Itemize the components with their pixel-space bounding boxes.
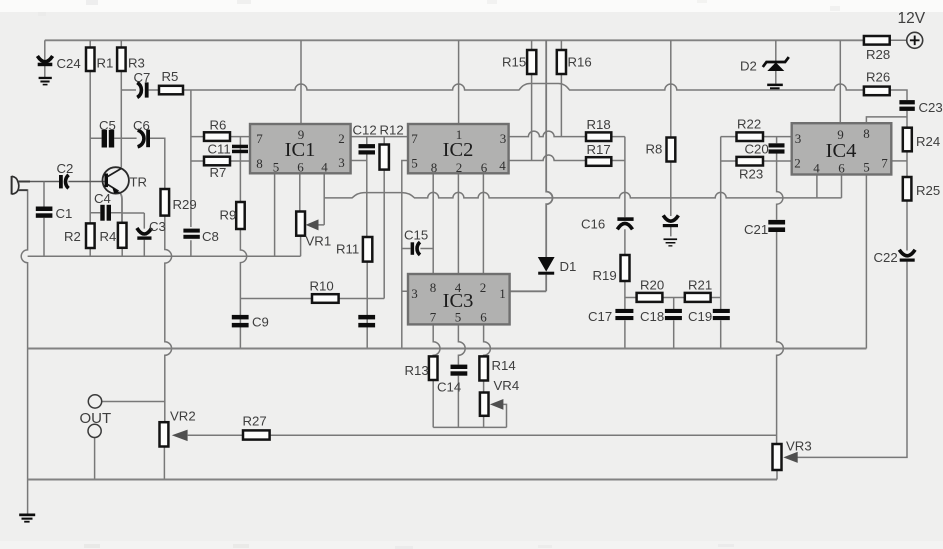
wire IC1 pin4 down and wavy line across to IC4 pins 4 6 — [323, 173, 325, 225]
wire IC4 pin5 down to bus end — [865, 175, 867, 349]
svg-text:R19: R19 — [593, 268, 617, 283]
svg-text:6: 6 — [297, 160, 304, 175]
wire C24 drop from rail — [44, 40, 46, 77]
IC op-amp U1 box IC1 — [250, 124, 351, 173]
capacitor C19 — [713, 309, 730, 313]
resistor R1 — [86, 48, 95, 72]
svg-text:C21: C21 — [744, 222, 768, 237]
wire R20 R21 row — [625, 297, 721, 299]
capacitor C3 (polarized) — [137, 228, 152, 234]
svg-text:C3: C3 — [149, 219, 166, 234]
wire R10 row — [240, 298, 384, 300]
resistor R11 — [363, 237, 372, 262]
wire bottom bus y479 — [28, 479, 777, 481]
IC box IC2 — [408, 124, 509, 173]
svg-text:R2: R2 — [64, 229, 81, 244]
wire C11 R9 C9 vertical — [240, 137, 246, 349]
capacitor C15 (polarized) — [411, 242, 415, 255]
svg-text:4: 4 — [499, 158, 506, 173]
capacitor C17 — [615, 309, 633, 313]
svg-text:C9: C9 — [252, 315, 269, 330]
svg-text:8: 8 — [431, 160, 438, 175]
wire OUT bottom drop — [94, 438, 96, 480]
faint scan artifacts top edge — [86, 0, 98, 5]
IC box IC3 — [408, 274, 510, 324]
svg-text:C19: C19 — [688, 309, 712, 324]
svg-text:5: 5 — [455, 310, 462, 325]
svg-text:R14: R14 — [492, 358, 516, 373]
wire IC1 pin9 to rail — [300, 40, 302, 124]
capacitor C8 — [183, 229, 199, 233]
svg-text:R17: R17 — [587, 142, 611, 157]
svg-text:6: 6 — [480, 310, 487, 325]
resistor R5 — [159, 86, 183, 95]
wire IC4 pin8 jog to right column — [866, 117, 907, 123]
potentiometer VR4 — [480, 393, 489, 416]
svg-text:C15: C15 — [404, 228, 428, 243]
svg-text:8: 8 — [430, 280, 437, 295]
svg-text:5: 5 — [863, 160, 870, 175]
svg-text:R10: R10 — [310, 279, 334, 294]
svg-text:6: 6 — [481, 160, 488, 175]
wire IC2 pin4 to R17 with hop — [509, 155, 586, 160]
svg-text:R9: R9 — [220, 208, 237, 223]
svg-text:C2: C2 — [57, 161, 74, 176]
wire IC2 pin2 to IC3 pin4 — [457, 173, 459, 274]
svg-text:R28: R28 — [866, 47, 890, 62]
wire mic to C2 to TR base — [21, 181, 104, 183]
svg-text:R4: R4 — [100, 229, 117, 244]
wire C1 leads — [43, 182, 45, 257]
wire IC2 pin3 to R18 with hops — [509, 131, 586, 137]
capacitor C12 — [359, 144, 376, 148]
capacitor C6 (polarized) — [138, 130, 144, 147]
resistor R2 — [86, 223, 95, 248]
svg-text:4: 4 — [813, 161, 820, 176]
capacitor C11 — [232, 145, 248, 149]
wire R18 R17 right ends to C16 column — [611, 137, 625, 349]
wire mic bottom to bottom-left ground rail — [20, 190, 28, 514]
capacitor C22 (polarized) — [899, 250, 915, 256]
svg-text:1: 1 — [499, 286, 506, 301]
svg-text:R1: R1 — [97, 56, 114, 71]
svg-text:R16: R16 — [568, 55, 592, 70]
wire right column R26 C23 R24 R25 C22 to VR3 tail — [798, 90, 908, 457]
svg-text:6: 6 — [838, 161, 845, 176]
wire VR2 bottom drop — [163, 447, 165, 480]
wire C12 R11 vertical — [366, 137, 368, 349]
capacitor C4 — [100, 205, 104, 221]
wire bus y256 with hop over R9 line — [28, 255, 301, 257]
resistor R23 — [737, 157, 764, 166]
microphone input — [11, 176, 13, 194]
resistor R6 — [204, 132, 230, 141]
capacitor C21 — [768, 220, 785, 225]
resistor R21 — [685, 293, 711, 302]
wire IC1 pin5 to bus — [274, 173, 276, 256]
wire VR2 wiper to R27 to VR3 top — [188, 434, 777, 436]
wire R15 line — [531, 40, 533, 160]
zener diode D2 — [763, 57, 789, 67]
svg-text:VR3: VR3 — [786, 439, 812, 454]
svg-text:OUT: OUT — [80, 410, 112, 427]
svg-text:4: 4 — [455, 280, 462, 295]
svg-text:D1: D1 — [560, 259, 577, 274]
svg-text:R21: R21 — [688, 278, 712, 293]
resistor R22 — [737, 132, 764, 141]
svg-text:R29: R29 — [173, 197, 197, 212]
wire C20 C21 VR3 column with hops — [777, 137, 784, 444]
svg-text:R6: R6 — [210, 118, 227, 133]
svg-text:R3: R3 — [128, 56, 145, 71]
svg-text:R20: R20 — [640, 278, 664, 293]
svg-text:3: 3 — [338, 155, 345, 170]
resistor R24 — [903, 128, 912, 152]
capacitor C18 — [665, 309, 682, 313]
svg-text:9: 9 — [837, 127, 844, 142]
svg-text:R27: R27 — [243, 414, 267, 429]
wire R22 R23 horizontal leads — [721, 137, 792, 161]
wire R16 line — [560, 40, 562, 136]
resistor R29 — [161, 189, 170, 216]
wire R2 R4 bottoms to bus — [90, 248, 122, 256]
svg-text:R12: R12 — [380, 123, 404, 138]
svg-text:9: 9 — [298, 127, 305, 142]
svg-text:C11: C11 — [208, 142, 231, 157]
svg-text:C6: C6 — [133, 118, 150, 133]
svg-text:D2: D2 — [740, 59, 757, 74]
svg-text:C14: C14 — [437, 380, 461, 395]
wire R12 vertical — [383, 137, 385, 299]
svg-text:8: 8 — [863, 126, 870, 141]
resistor R15 — [527, 50, 536, 74]
svg-text:C1: C1 — [56, 206, 73, 221]
capacitor C9 — [232, 315, 249, 320]
svg-text:IC1: IC1 — [285, 139, 316, 161]
wire C18 column — [673, 298, 675, 349]
svg-text:3: 3 — [795, 131, 802, 146]
ground below D2 — [767, 84, 783, 87]
wire IC4 pin4 pin6 drops — [817, 175, 842, 198]
wire R8 column rail to gnd cap — [670, 40, 672, 236]
svg-text:C24: C24 — [57, 56, 81, 71]
resistor R13 — [429, 356, 438, 380]
svg-text:C7: C7 — [134, 70, 151, 85]
resistor R3 — [117, 48, 126, 72]
svg-text:3: 3 — [411, 286, 418, 301]
wire IC2 pin1 to rail — [458, 40, 460, 124]
wire R22 R23 left column down to C19 — [720, 137, 722, 349]
svg-text:C18: C18 — [640, 309, 664, 324]
capacitor C7 (polarized) — [137, 83, 141, 98]
svg-text:VR1: VR1 — [306, 234, 332, 249]
OUT terminals — [88, 395, 101, 408]
resistor R9 — [236, 202, 245, 229]
svg-text:C23: C23 — [919, 100, 943, 115]
svg-text:8: 8 — [256, 156, 263, 171]
wire IC3 bottom pins with hops over bus — [433, 324, 440, 427]
svg-text:7: 7 — [411, 131, 418, 146]
wire C5 C6 row to R29 — [90, 138, 165, 189]
diode D1 — [538, 257, 555, 272]
wire VR3 bottom drop — [776, 470, 778, 480]
wire 12V top rail — [45, 39, 864, 41]
wire R28 to terminal — [890, 39, 907, 41]
svg-text:3: 3 — [500, 131, 507, 146]
svg-text:R22: R22 — [737, 117, 761, 132]
wire R1 leads — [89, 40, 91, 223]
faint scan artifacts bottom edge — [84, 544, 100, 548]
wire IC2 pin6 to IC3 pin2 — [482, 173, 484, 274]
svg-text:C16: C16 — [581, 217, 605, 232]
svg-text:R23: R23 — [739, 167, 763, 182]
capacitor to ground near R8 — [663, 215, 678, 221]
wire IC2 pin5 down to IC3 pin3 and bus — [402, 161, 408, 349]
capacitor C2 (polarized) — [59, 175, 63, 188]
capacitor C5 — [102, 130, 107, 148]
svg-text:IC2: IC2 — [443, 139, 474, 161]
ground below C24 — [39, 77, 52, 79]
wire R3 leads — [120, 40, 122, 167]
capacitor C20 — [769, 143, 785, 147]
IC box IC4 — [792, 123, 892, 174]
capacitor C14 — [451, 365, 468, 369]
svg-text:C8: C8 — [202, 229, 219, 244]
wire IC1 pin3 to C12 — [351, 160, 367, 162]
wire IC4 pin7 to right column — [891, 160, 907, 162]
svg-text:R15: R15 — [502, 55, 526, 70]
resistor R28 — [864, 36, 890, 45]
resistor R19 — [621, 255, 630, 281]
svg-text:5: 5 — [411, 156, 418, 171]
resistor R17 — [586, 157, 611, 166]
svg-text:R18: R18 — [587, 117, 611, 132]
transistor TR — [103, 167, 129, 193]
ground bottom-left — [19, 514, 35, 517]
svg-text:7: 7 — [881, 156, 888, 171]
svg-text:C20: C20 — [745, 142, 769, 157]
svg-text:R7: R7 — [210, 165, 227, 180]
wire C15 leads — [402, 248, 433, 250]
svg-text:C17: C17 — [588, 309, 612, 324]
resistor R26 — [864, 87, 890, 96]
svg-text:VR4: VR4 — [494, 378, 520, 393]
potentiometer VR2 — [160, 422, 169, 446]
potentiometer VR1 — [296, 212, 305, 236]
resistor R27 — [243, 430, 270, 439]
svg-text:2: 2 — [794, 156, 801, 171]
svg-text:7: 7 — [430, 310, 437, 325]
svg-text:2: 2 — [456, 160, 463, 175]
svg-text:C4: C4 — [94, 191, 111, 206]
resistor R25 — [903, 177, 912, 201]
wire IC4 pin9 to rail — [839, 40, 841, 123]
wire VR1 leads and wiper tail — [300, 173, 324, 256]
svg-text:2: 2 — [338, 131, 345, 146]
svg-text:R24: R24 — [916, 134, 940, 149]
12V terminal — [907, 32, 923, 48]
wire R5 to C8 vertical with R6 R7 taps — [190, 90, 192, 256]
wire VR4 wiper tail — [503, 404, 506, 427]
wire OUT top to VR2 line — [102, 401, 165, 403]
svg-text:C12: C12 — [353, 123, 377, 138]
potentiometer VR3 — [773, 444, 782, 470]
svg-text:4: 4 — [321, 160, 328, 175]
resistor R14 — [479, 356, 488, 380]
resistor R16 — [557, 50, 566, 74]
capacitor C23 — [899, 100, 914, 104]
svg-text:7: 7 — [256, 131, 263, 146]
wire D2 drop — [775, 40, 777, 83]
wire R13 C14 VR4 tie line — [433, 426, 506, 428]
wire bus y348 — [28, 348, 867, 350]
capacitor C24 (polarized, to ground) — [37, 56, 52, 62]
svg-text:C22: C22 — [874, 250, 898, 265]
svg-text:R11: R11 — [336, 242, 359, 257]
resistor R4 — [118, 223, 127, 248]
svg-text:R13: R13 — [405, 363, 429, 378]
capacitor C16 (polarized) — [617, 217, 633, 221]
resistor R18 — [586, 132, 611, 141]
svg-text:VR2: VR2 — [170, 409, 196, 424]
wire IC2 pin8 to IC3 pin8 — [432, 173, 434, 274]
resistor R7 — [204, 157, 230, 166]
svg-text:5: 5 — [273, 160, 280, 175]
svg-text:R26: R26 — [866, 70, 890, 85]
svg-text:2: 2 — [480, 280, 487, 295]
wire D1 line rail to IC3 pin1 with hop over wavy — [510, 40, 553, 291]
svg-text:IC4: IC4 — [826, 140, 857, 162]
svg-text:C5: C5 — [99, 118, 116, 133]
ground below cap — [664, 238, 678, 240]
resistor R10 — [312, 294, 339, 303]
capacitor C1 — [36, 207, 53, 212]
wire TR emitter down and C4 side leads and C3 branch — [119, 192, 122, 223]
svg-text:TR: TR — [130, 175, 148, 190]
resistor R20 — [637, 293, 663, 302]
svg-text:12V: 12V — [898, 10, 926, 27]
svg-text:R25: R25 — [916, 183, 940, 198]
wire R6 R7 horizontal leads — [191, 137, 250, 161]
svg-text:1: 1 — [456, 127, 463, 142]
svg-text:R5: R5 — [162, 69, 179, 84]
capacitor under R11 — [358, 315, 375, 320]
wire R29 down to VR2 with hops over both buses — [165, 216, 172, 423]
resistor R12 — [380, 145, 389, 170]
wire IC1 pin2 to IC2 pin7 — [351, 136, 408, 138]
wire C7 R5 row and long y90 net with hops — [121, 84, 864, 91]
resistor R8 — [667, 138, 676, 162]
svg-text:R8: R8 — [646, 142, 663, 157]
